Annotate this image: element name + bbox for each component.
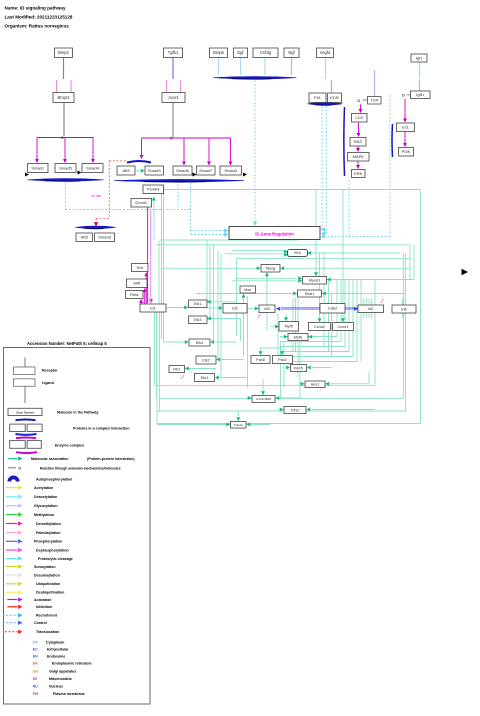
- svg-text:Enzyme complex: Enzyme complex: [55, 443, 84, 447]
- svg-text:Tcfe2a: Tcfe2a: [234, 423, 243, 427]
- svg-text:PAX5: PAX5: [294, 366, 303, 370]
- svg-text:Ubiquitination: Ubiquitination: [36, 582, 60, 586]
- svg-text:Proteins in a complex interact: Proteins in a complex interaction: [73, 426, 130, 430]
- svg-text:Id1: Id1: [150, 305, 156, 310]
- svg-text:ERK: ERK: [354, 171, 363, 176]
- svg-text:Cytoplasm: Cytoplasm: [46, 641, 64, 645]
- svg-text:Acetylation: Acetylation: [34, 486, 53, 490]
- svg-text:Desumoylation: Desumoylation: [34, 573, 60, 577]
- svg-text:Atf3: Atf3: [122, 168, 130, 173]
- svg-text:PI3K: PI3K: [402, 149, 411, 154]
- svg-text:Hes1: Hes1: [311, 383, 320, 387]
- svg-text:Myf5: Myf5: [285, 325, 293, 329]
- svg-text:Sumoylation: Sumoylation: [34, 565, 56, 569]
- svg-text:MAPK: MAPK: [353, 154, 365, 159]
- svg-text:Ets1: Ets1: [201, 376, 209, 380]
- svg-text:Igf1r: Igf1r: [416, 92, 425, 97]
- svg-text:Bmp6: Bmp6: [213, 50, 224, 55]
- svg-text:Id3: Id3: [264, 307, 269, 311]
- svg-text:Last Modified: 20211223125128: Last Modified: 20211223125128: [5, 15, 73, 20]
- svg-text:Name: ID signaling pathway: Name: ID signaling pathway: [5, 6, 66, 11]
- svg-text:Autophosphorylation: Autophosphorylation: [36, 478, 72, 482]
- svg-text:Proteolytic cleavage: Proteolytic cleavage: [38, 557, 73, 561]
- svg-text:Recruitment: Recruitment: [36, 614, 58, 618]
- svg-text:Smad3: Smad3: [148, 168, 161, 173]
- svg-text:Myf6: Myf6: [294, 335, 302, 339]
- svg-text:Plasma membrane: Plasma membrane: [53, 692, 85, 696]
- svg-text:EN: EN: [33, 654, 38, 658]
- svg-text:Tert: Tert: [136, 265, 144, 270]
- svg-text:CY: CY: [33, 641, 39, 645]
- svg-text:Irs1: Irs1: [402, 125, 409, 130]
- svg-text:Deubiquitination: Deubiquitination: [36, 591, 64, 595]
- svg-text:Ngf: Ngf: [288, 50, 295, 55]
- svg-text:Ccna2: Ccna2: [314, 325, 325, 329]
- svg-text:Acvr1: Acvr1: [168, 95, 179, 100]
- svg-text:Elk1: Elk1: [194, 302, 201, 306]
- svg-text:Ets2: Ets2: [202, 358, 210, 362]
- svg-text:Ccne1: Ccne1: [338, 325, 349, 329]
- svg-text:Myog: Myog: [266, 267, 275, 271]
- svg-text:Vegfa: Vegfa: [320, 50, 331, 55]
- svg-text:Reaction through unknown mecha: Reaction through unknown mechanisms/mole…: [40, 466, 121, 470]
- svg-text:Flt1: Flt1: [314, 95, 321, 100]
- svg-text:CY / NU: CY / NU: [92, 194, 102, 198]
- svg-text:LOC679869: LOC679869: [256, 397, 272, 401]
- svg-text:Organism: Rattus norvegicus: Organism: Rattus norvegicus: [5, 24, 70, 29]
- svg-text:Igf1: Igf1: [416, 55, 423, 60]
- svg-text:PM: PM: [33, 692, 38, 696]
- svg-text:Tcf12: Tcf12: [290, 408, 299, 412]
- svg-text:Id4: Id4: [401, 306, 407, 311]
- svg-text:GO: GO: [33, 669, 39, 673]
- svg-text:Receptor: Receptor: [42, 369, 58, 373]
- svg-text:(Protein-protein interaction): (Protein-protein interaction): [87, 457, 135, 461]
- svg-text:Smad5: Smad5: [59, 165, 72, 170]
- svg-text:MT: MT: [33, 677, 39, 681]
- svg-text:Id2: Id2: [368, 307, 373, 311]
- svg-text:Accession Number: NetPath 5; c: Accession Number: NetPath 5; cellmap 5: [27, 341, 107, 346]
- svg-text:LCK: LCK: [355, 115, 363, 120]
- svg-text:Smad6: Smad6: [176, 168, 189, 173]
- svg-text:Control: Control: [34, 621, 47, 625]
- svg-text:Smad3: Smad3: [98, 235, 111, 240]
- svg-text:Mitf: Mitf: [134, 281, 141, 286]
- svg-text:Smad1: Smad1: [31, 165, 44, 170]
- svg-text:TCR: TCR: [370, 98, 378, 103]
- svg-text:RAS: RAS: [354, 139, 363, 144]
- svg-text:Mitochondria: Mitochondria: [49, 677, 73, 681]
- svg-text:Csf1lg: Csf1lg: [260, 50, 272, 55]
- svg-text:Phosphorylation: Phosphorylation: [34, 540, 62, 544]
- svg-text:Ligand: Ligand: [42, 381, 54, 385]
- svg-text:Psmb4: Psmb4: [147, 187, 160, 192]
- svg-text:Ifi16: Ifi16: [294, 251, 301, 255]
- svg-text:Bmp2: Bmp2: [58, 50, 69, 55]
- svg-text:Smad4: Smad4: [224, 168, 237, 173]
- svg-text:Extracellular: Extracellular: [47, 647, 69, 651]
- svg-text:Max: Max: [244, 288, 251, 292]
- svg-text:Id2: Id2: [232, 306, 238, 311]
- svg-text:ER: ER: [33, 662, 38, 666]
- svg-text:Translocation: Translocation: [36, 630, 59, 634]
- svg-text:Methylation: Methylation: [34, 513, 54, 517]
- svg-text:Cdk2: Cdk2: [328, 306, 338, 311]
- svg-text:Endoplasmic reticulum: Endoplasmic reticulum: [52, 662, 92, 666]
- svg-text:Demethylation: Demethylation: [36, 522, 61, 526]
- svg-text:Dnmt1: Dnmt1: [135, 200, 148, 205]
- svg-text:Snai1: Snai1: [305, 292, 315, 296]
- svg-text:Inhibition: Inhibition: [36, 605, 52, 609]
- svg-text:Molecular association: Molecular association: [31, 457, 69, 461]
- svg-text:Endosome: Endosome: [47, 654, 65, 658]
- svg-text:ID Gene Regulation: ID Gene Regulation: [255, 231, 294, 236]
- svg-text:NU: NU: [33, 684, 39, 688]
- svg-text:Golgi apparatus: Golgi apparatus: [49, 669, 76, 673]
- svg-text:Elk3: Elk3: [194, 318, 201, 322]
- svg-text:Activation: Activation: [34, 598, 51, 602]
- svg-text:Egf: Egf: [237, 50, 244, 55]
- svg-text:Elk4: Elk4: [196, 341, 203, 345]
- svg-text:EC: EC: [33, 647, 38, 651]
- svg-text:Atf3: Atf3: [81, 235, 89, 240]
- svg-text:Dephosphorylation: Dephosphorylation: [36, 548, 69, 552]
- svg-text:Bmpr2: Bmpr2: [57, 95, 70, 100]
- svg-text:Pax2: Pax2: [278, 358, 287, 362]
- svg-text:KDR: KDR: [330, 95, 339, 100]
- svg-text:Glycosylation: Glycosylation: [34, 504, 58, 508]
- svg-text:Gene Symbol: Gene Symbol: [16, 410, 34, 414]
- svg-text:Molecule in the Pathway: Molecule in the Pathway: [57, 410, 99, 414]
- svg-text:Myod1: Myod1: [309, 279, 320, 283]
- svg-text:Nucleus: Nucleus: [49, 684, 63, 688]
- svg-text:Palmitoylation: Palmitoylation: [36, 531, 61, 535]
- svg-text:Tgfb1: Tgfb1: [168, 50, 179, 55]
- svg-text:Rela: Rela: [130, 292, 139, 297]
- svg-text:Pax8: Pax8: [256, 358, 265, 362]
- svg-text:Smad4: Smad4: [86, 165, 99, 170]
- svg-text:Rb1: Rb1: [173, 367, 180, 371]
- svg-text:Deacetylation: Deacetylation: [34, 495, 57, 499]
- svg-text:Smad7: Smad7: [199, 168, 212, 173]
